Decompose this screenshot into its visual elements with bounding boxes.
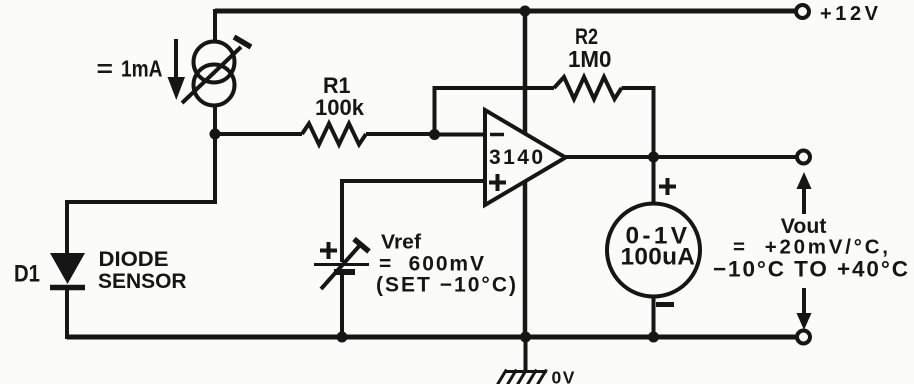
svg-text:= 600mV: = 600mV [379,253,484,276]
node junction R1 / feedback [429,129,440,140]
svg-text:0V: 0V [552,368,576,384]
svg-text:D1: D1 [14,261,40,288]
svg-text:−10°C TO +40°C: −10°C TO +40°C [713,257,908,282]
node top rail junction [520,6,531,17]
polarity + for Vref [320,249,337,253]
current source adjust diagonal [182,47,241,103]
polarity + meter [659,185,676,189]
resistor R1 [218,132,302,136]
wire current source bottom lead [213,105,217,136]
polarity - meter [656,302,674,307]
svg-text:= +20mV/°C,: = +20mV/°C, [733,236,888,259]
svg-text:1mA: 1mA [121,56,163,82]
arrow up to Vout top [802,186,806,214]
battery Vref (adjustable) [314,263,369,266]
op-amp U1 3140 [485,110,566,205]
node junction Vref / bottom rail [337,332,348,343]
svg-text:100k: 100k [315,95,365,120]
wire Vref to bottom rail [340,272,344,338]
terminal +12V [796,5,809,18]
terminal Vout bottom [797,331,810,344]
wire op-amp output [564,155,796,159]
svg-text:100uA: 100uA [621,244,695,271]
wire bottom rail [67,335,796,340]
resistor R2 [554,77,622,99]
node junction at current source / R1 [210,129,221,140]
wire meter bottom lead [652,296,656,338]
svg-text:Vref: Vref [381,231,421,254]
svg-text:(SET −10°C): (SET −10°C) [376,274,516,297]
svg-text:SENSOR: SENSOR [98,270,187,293]
arrow down to Vout bottom [802,288,806,316]
svg-text:=: = [97,56,114,82]
svg-text:+12V: +12V [820,3,879,25]
wire +12V top rail [215,9,795,14]
current source CS1 circles [194,42,235,83]
wire feedback right branch [652,88,654,157]
node ground junction [520,332,531,343]
wire meter top lead [652,157,656,205]
wire diode to bottom rail [65,287,69,339]
svg-text:1M0: 1M0 [568,46,612,72]
diode D1 [50,253,85,284]
node meter bottom junction [648,332,659,343]
wire non-inverting input [342,181,486,262]
wire feedback left branch [435,88,555,137]
wire supply vertical through op-amp (x=525) [523,11,528,337]
wire to inverting input [434,133,486,137]
svg-text:DIODE: DIODE [99,247,169,271]
ground symbol [524,337,528,371]
node output junction [648,152,659,163]
terminal Vout top [797,151,810,164]
meter M1 [607,204,700,297]
wire down-jog to diode [67,134,215,255]
arrow current direction [174,39,178,80]
wire current source top lead [213,9,217,42]
